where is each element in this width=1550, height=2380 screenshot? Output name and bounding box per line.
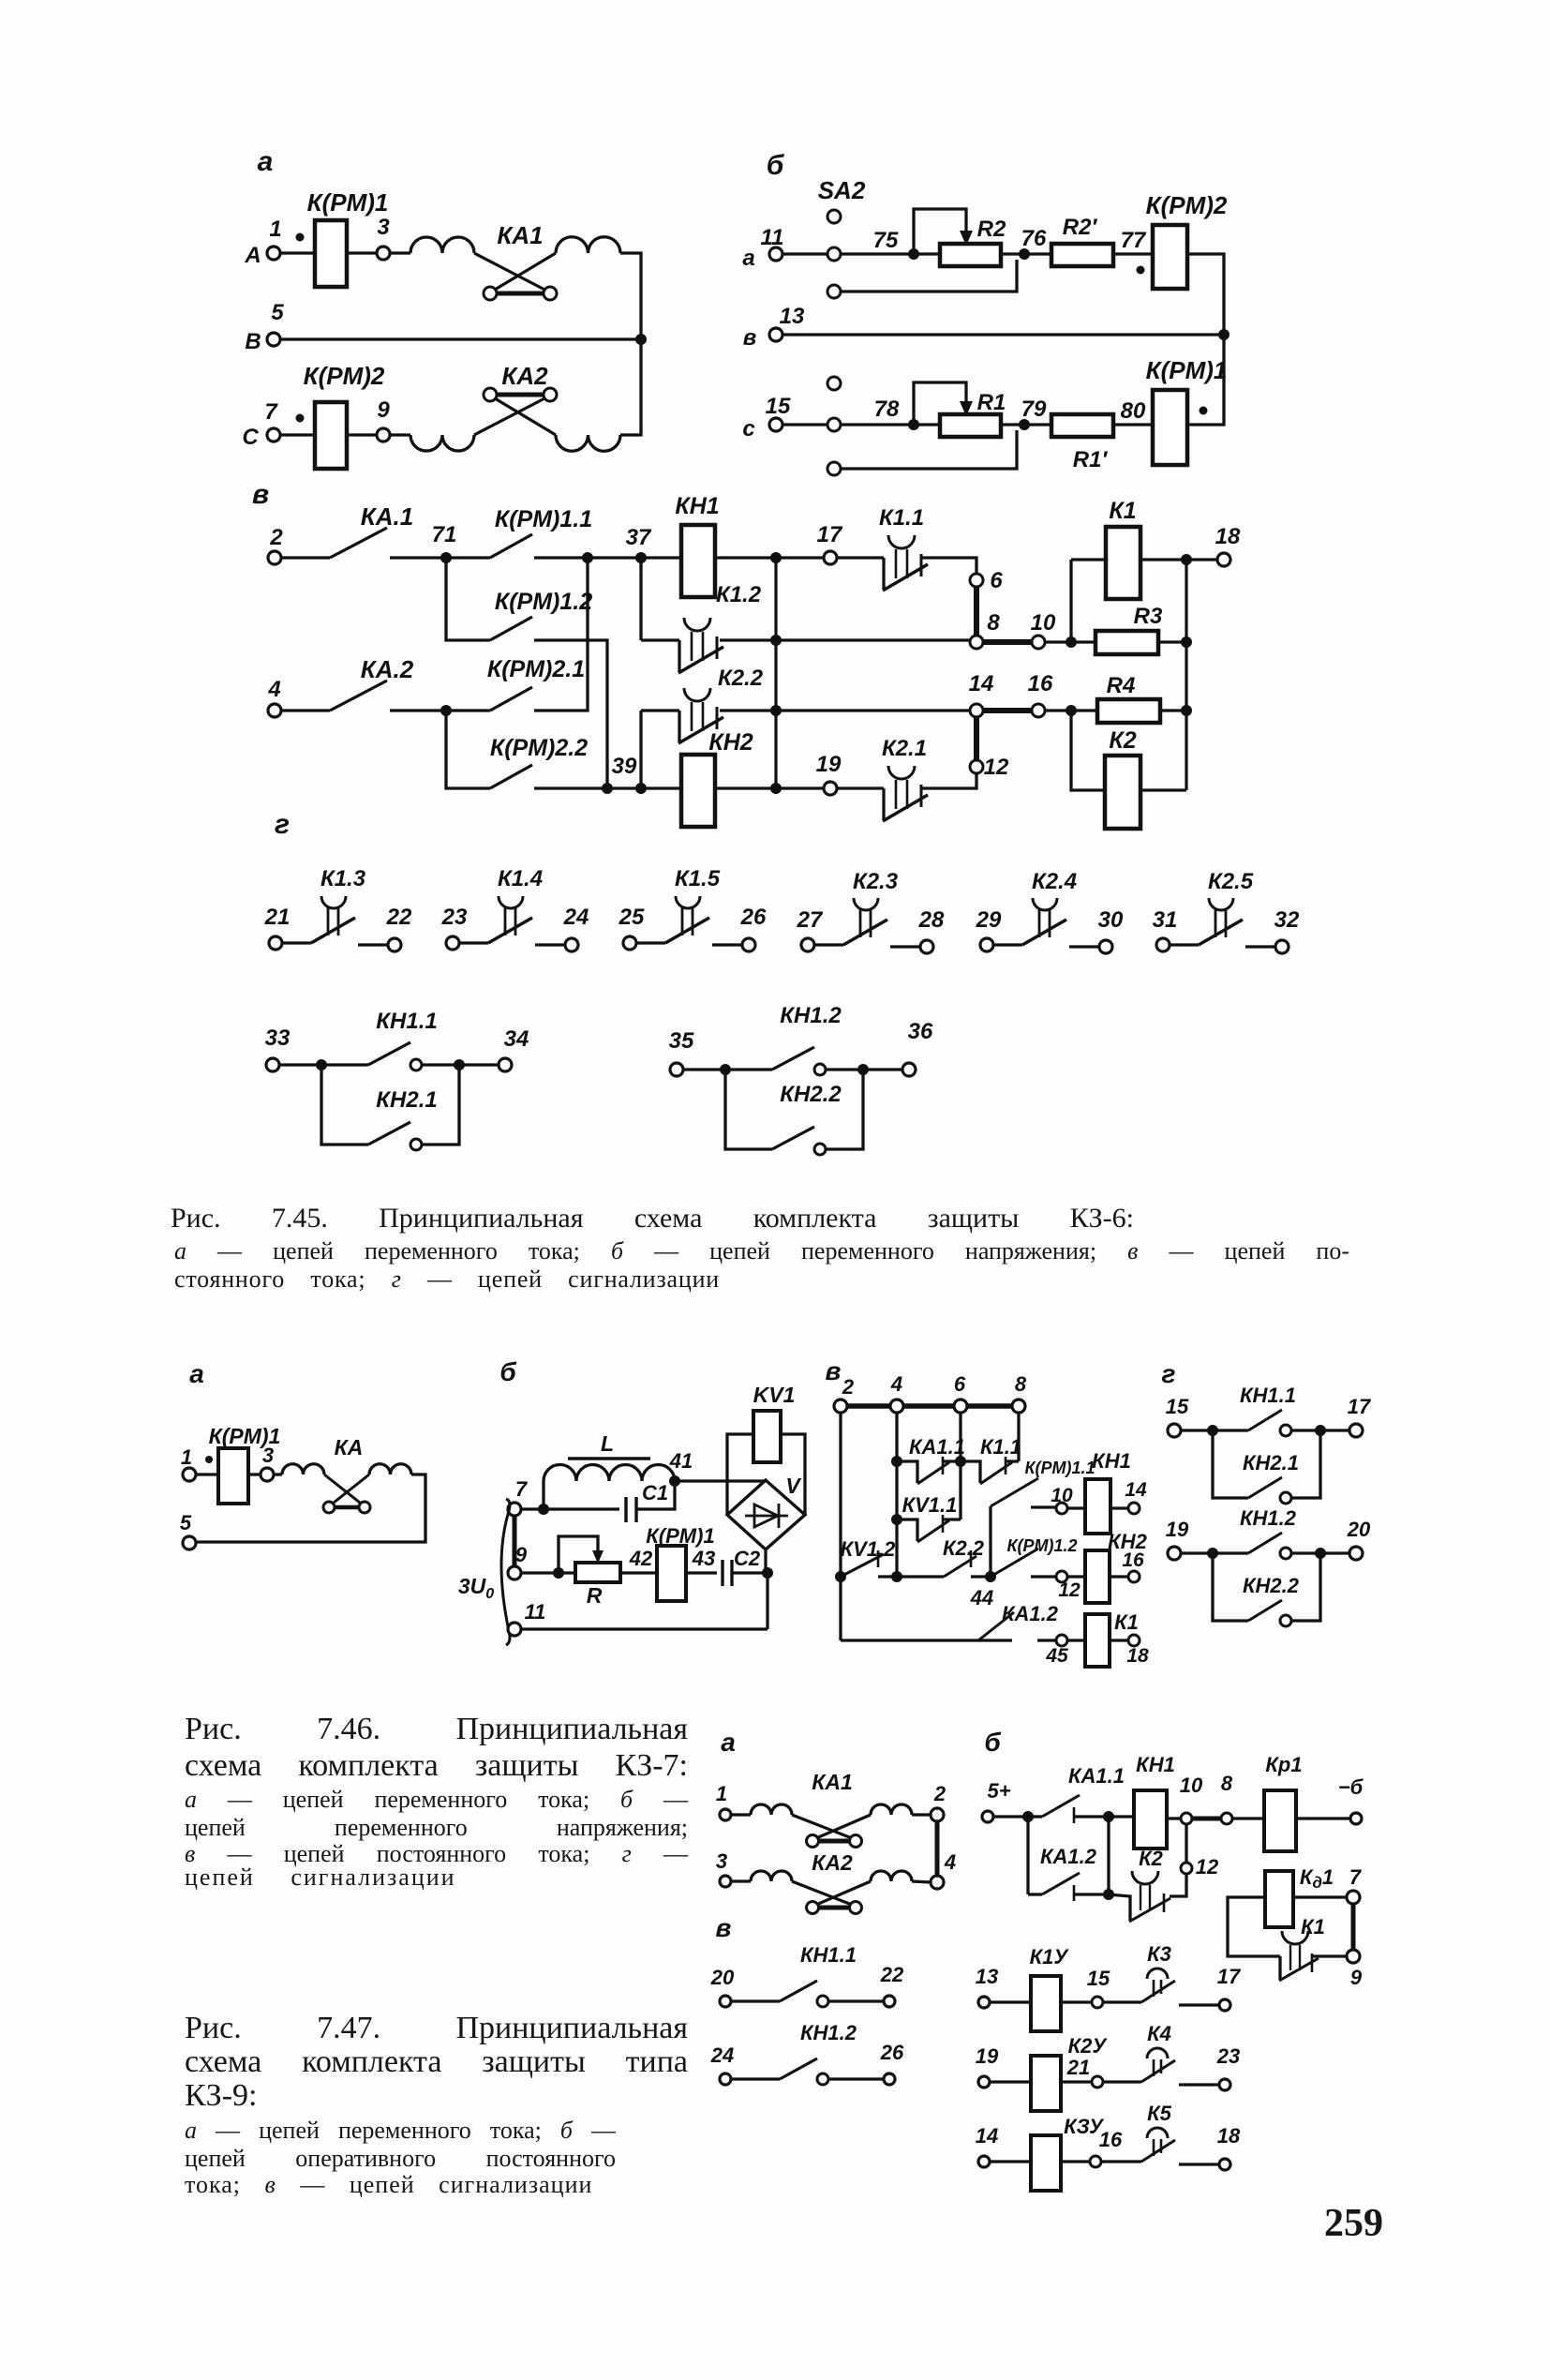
svg-text:8: 8 xyxy=(987,610,1000,636)
svg-text:К2.5: К2.5 xyxy=(1208,869,1254,894)
terminal 36 xyxy=(902,1063,916,1076)
node junction xyxy=(770,635,782,646)
branch to K1.2 xyxy=(639,558,642,640)
terminal A xyxy=(267,247,280,260)
node junction xyxy=(1181,705,1192,716)
rheostat tap R1 xyxy=(914,382,966,425)
wire 4 down xyxy=(895,1413,898,1577)
node junction xyxy=(720,1064,731,1075)
svg-text:4: 4 xyxy=(944,1850,956,1874)
svg-text:12: 12 xyxy=(984,755,1009,780)
svg-text:20: 20 xyxy=(1347,1518,1371,1541)
wire xyxy=(1291,1430,1320,1498)
contact K2.2 (time) xyxy=(641,709,679,711)
terminal 28 xyxy=(920,940,933,953)
CT winding KA2 left xyxy=(751,1871,792,1881)
svg-text:К2: К2 xyxy=(1139,1847,1164,1870)
svg-text:К2.4: К2.4 xyxy=(1032,869,1077,894)
svg-text:КН1.1: КН1.1 xyxy=(800,1943,857,1967)
wire 8 down xyxy=(1017,1413,1020,1461)
svg-text:К1.4: К1.4 xyxy=(498,866,543,891)
wire xyxy=(347,251,377,254)
svg-text:80: 80 xyxy=(1121,398,1146,424)
contact blade xyxy=(883,564,928,591)
svg-text:г: г xyxy=(275,809,290,840)
node 16 xyxy=(1128,1571,1140,1582)
svg-text:17: 17 xyxy=(1348,1395,1372,1418)
wire xyxy=(588,556,641,559)
wire xyxy=(1228,1897,1280,1956)
svg-text:К(РМ)1.1: К(РМ)1.1 xyxy=(1024,1459,1095,1477)
node 14 xyxy=(970,704,983,717)
wire xyxy=(248,1473,261,1475)
svg-text:L: L xyxy=(601,1431,614,1456)
node 12 xyxy=(1056,1571,1067,1582)
wire xyxy=(1109,1815,1134,1818)
node junction xyxy=(582,552,593,563)
node junction xyxy=(1103,1889,1114,1900)
polarity dot xyxy=(1137,266,1145,275)
relay coil Kr1 xyxy=(1264,1790,1296,1851)
node junction xyxy=(1022,1811,1034,1822)
svg-text:3: 3 xyxy=(262,1444,274,1467)
wire xyxy=(1045,709,1071,711)
wire xyxy=(1045,640,1071,643)
svg-text:23: 23 xyxy=(1216,2044,1240,2068)
svg-text:6: 6 xyxy=(954,1372,966,1396)
svg-text:28: 28 xyxy=(918,907,945,933)
node 6 xyxy=(970,574,983,587)
svg-text:К1У: К1У xyxy=(1030,1945,1070,1968)
svg-text:11: 11 xyxy=(525,1600,546,1624)
svg-text:8: 8 xyxy=(1221,1772,1233,1795)
wire xyxy=(534,556,588,559)
svg-text:К(РМ)1: К(РМ)1 xyxy=(1146,356,1228,384)
node junction xyxy=(955,1456,966,1467)
KA link bar xyxy=(335,1505,359,1510)
wire xyxy=(521,1507,544,1510)
contact blade xyxy=(883,795,928,821)
relay coil K(PM)1 xyxy=(315,220,347,287)
svg-text:8: 8 xyxy=(1015,1372,1027,1396)
svg-text:КН1.2: КН1.2 xyxy=(1240,1506,1297,1530)
svg-text:К2.3: К2.3 xyxy=(853,869,899,894)
svg-text:К2.1: К2.1 xyxy=(882,736,927,761)
svg-text:11: 11 xyxy=(761,225,784,250)
svg-text:КН2.1: КН2.1 xyxy=(1243,1451,1299,1474)
svg-text:15: 15 xyxy=(1087,1967,1110,1990)
relay coil KN1 xyxy=(681,525,715,597)
fixed contact xyxy=(920,785,923,807)
svg-text:К(РМ)2.1: К(РМ)2.1 xyxy=(487,656,585,682)
svg-text:9: 9 xyxy=(1350,1966,1363,1989)
wire xyxy=(607,786,641,789)
node junction xyxy=(1315,1425,1326,1436)
wire xyxy=(1186,558,1217,561)
terminal 5 xyxy=(183,1536,196,1549)
wire xyxy=(641,556,681,559)
wire xyxy=(782,423,827,426)
brace 3U0 xyxy=(501,1499,510,1645)
wire xyxy=(358,943,388,946)
wire v xyxy=(782,333,1224,336)
wire xyxy=(912,1813,931,1816)
svg-text:20: 20 xyxy=(710,1966,735,1989)
KA1 terminal circles xyxy=(807,1835,819,1848)
svg-text:22: 22 xyxy=(880,1963,904,1986)
node junction xyxy=(635,783,647,794)
relay coil K2 xyxy=(1071,711,1105,790)
wire xyxy=(678,640,680,672)
wire xyxy=(1167,1817,1180,1819)
caption fig 7.46 xyxy=(185,1712,688,1747)
right bus xyxy=(1185,560,1187,790)
resistor R xyxy=(559,1571,575,1574)
svg-text:К1: К1 xyxy=(1109,498,1136,524)
svg-text:в: в xyxy=(743,325,757,351)
svg-text:в: в xyxy=(716,1913,732,1942)
resistor R1' xyxy=(1051,414,1113,437)
node 3 xyxy=(261,1468,274,1481)
node 10 xyxy=(1032,636,1045,649)
svg-text:1: 1 xyxy=(269,217,281,242)
wire xyxy=(459,1063,499,1066)
terminal 2 xyxy=(268,551,281,564)
caption fig 7.45 xyxy=(171,1203,1134,1235)
svg-text:КV1.1: КV1.1 xyxy=(902,1493,958,1517)
svg-text:КА1: КА1 xyxy=(497,221,543,249)
terminal v (13) xyxy=(769,328,782,341)
resistor R2 xyxy=(914,252,940,255)
wire xyxy=(1067,1506,1085,1509)
node junction xyxy=(635,334,647,345)
svg-text:К1.5: К1.5 xyxy=(675,866,721,891)
time-delay cup xyxy=(888,535,915,548)
CT crossing KA2 xyxy=(474,396,550,435)
svg-text:С2: С2 xyxy=(734,1547,761,1570)
node 3 xyxy=(377,247,390,260)
wire xyxy=(1291,1429,1320,1431)
svg-text:10: 10 xyxy=(1180,1774,1203,1797)
wire xyxy=(280,251,315,254)
contact KA.2 xyxy=(330,681,387,711)
svg-text:КА2: КА2 xyxy=(501,362,548,390)
svg-text:−б: −б xyxy=(1338,1775,1364,1799)
svg-text:13: 13 xyxy=(780,304,805,329)
wire xyxy=(1069,945,1099,948)
time-delay cup xyxy=(684,688,710,701)
relay coil K(PM)2 xyxy=(315,402,347,469)
resistor R4 xyxy=(1071,709,1097,711)
svg-text:25: 25 xyxy=(619,905,645,930)
svg-text:SA2: SA2 xyxy=(818,176,866,204)
svg-text:2: 2 xyxy=(842,1375,855,1399)
node junction xyxy=(454,1059,465,1070)
bus 2-8 xyxy=(847,1403,890,1409)
svg-text:К3: К3 xyxy=(1147,1942,1171,1966)
svg-text:R2: R2 xyxy=(977,217,1006,242)
terminal 34 xyxy=(499,1058,512,1071)
terminal 4 xyxy=(931,1876,944,1889)
SA2 contact c xyxy=(827,418,841,431)
polarity dot xyxy=(1200,407,1208,415)
svg-text:КН2.2: КН2.2 xyxy=(780,1082,842,1107)
wire xyxy=(1179,2003,1218,2006)
terminal 5+ xyxy=(982,1811,993,1822)
svg-text:R2′: R2′ xyxy=(1063,215,1098,240)
svg-text:1: 1 xyxy=(716,1782,727,1805)
rectifier V diamond xyxy=(727,1480,805,1549)
svg-text:7: 7 xyxy=(1349,1865,1363,1889)
svg-text:К(РМ)1.2: К(РМ)1.2 xyxy=(1006,1536,1077,1555)
contact КН2.1 branch xyxy=(1213,1430,1248,1498)
reactor L xyxy=(542,1481,544,1509)
wire xyxy=(1213,1429,1248,1431)
wire xyxy=(720,638,776,641)
SA2 spare contact a xyxy=(827,285,841,298)
wire xyxy=(1160,709,1186,711)
svg-text:КН1.2: КН1.2 xyxy=(780,1003,842,1028)
node junction xyxy=(440,705,452,716)
svg-text:71: 71 xyxy=(432,522,457,547)
svg-text:КА.1: КА.1 xyxy=(361,502,413,531)
svg-text:г: г xyxy=(1162,1359,1176,1388)
wire B xyxy=(280,337,641,340)
rheostat tap R2 xyxy=(914,209,966,254)
wire xyxy=(725,1068,772,1070)
node junction xyxy=(835,1571,846,1582)
terminal 8 xyxy=(1012,1400,1025,1413)
diode inside V xyxy=(745,1515,788,1518)
wire xyxy=(841,252,914,255)
svg-text:14: 14 xyxy=(1125,1479,1147,1501)
wire xyxy=(1031,1575,1055,1578)
svg-text:К1.2: К1.2 xyxy=(716,582,762,607)
svg-text:41: 41 xyxy=(669,1449,693,1473)
terminal -b xyxy=(1350,1813,1362,1824)
terminal 3 xyxy=(720,1876,731,1887)
wire xyxy=(766,1573,768,1629)
svg-text:КН1: КН1 xyxy=(1092,1449,1131,1473)
svg-text:16: 16 xyxy=(1122,1549,1144,1571)
node junction xyxy=(891,1456,902,1467)
wire xyxy=(912,1881,931,1882)
wire xyxy=(1113,252,1153,255)
svg-text:1: 1 xyxy=(181,1445,192,1469)
wire xyxy=(620,253,641,335)
node junction 79 xyxy=(1019,419,1030,430)
svg-text:КН1: КН1 xyxy=(675,493,719,519)
KA2 link bar xyxy=(819,1906,849,1910)
svg-text:7: 7 xyxy=(515,1477,529,1501)
wire xyxy=(347,433,377,436)
polarity dot xyxy=(296,233,305,242)
svg-text:24: 24 xyxy=(710,2043,734,2067)
node 45 xyxy=(1056,1635,1067,1646)
svg-text:3: 3 xyxy=(377,215,390,240)
link 8-10 xyxy=(983,639,1032,645)
node junction xyxy=(1066,636,1077,648)
node junction xyxy=(891,1514,902,1525)
contact K(PM)2.1 xyxy=(490,687,532,711)
svg-text:15: 15 xyxy=(1166,1395,1189,1418)
svg-text:12: 12 xyxy=(1196,1855,1219,1879)
wire xyxy=(422,1065,459,1145)
wire to node 79 xyxy=(841,430,1017,469)
node junction xyxy=(770,552,782,563)
node 17 xyxy=(824,551,837,564)
resistor R3 xyxy=(1071,640,1095,643)
terminal 32 xyxy=(1275,940,1289,953)
terminal 11 xyxy=(508,1623,521,1636)
wire xyxy=(776,556,824,559)
wire xyxy=(544,1507,619,1510)
svg-text:К(РМ)1: К(РМ)1 xyxy=(307,188,389,217)
wire xyxy=(841,423,914,426)
svg-text:36: 36 xyxy=(908,1019,933,1044)
svg-text:KV1: KV1 xyxy=(753,1383,796,1407)
terminal B xyxy=(267,333,280,346)
CT winding KA1 right xyxy=(556,237,620,253)
contact КН2.2 branch xyxy=(1213,1553,1248,1621)
svg-text:10: 10 xyxy=(1031,610,1056,636)
page number 259 xyxy=(1324,2202,1399,2246)
terminal 18 xyxy=(1217,553,1230,566)
wire xyxy=(715,556,776,559)
node 16 xyxy=(1032,704,1045,717)
svg-text:16: 16 xyxy=(1028,671,1053,696)
svg-text:КА1.1: КА1.1 xyxy=(909,1435,965,1459)
switch SA2 pole c xyxy=(827,377,841,390)
wire xyxy=(678,711,680,742)
terminal 6 xyxy=(954,1400,967,1413)
svg-text:16: 16 xyxy=(1099,2128,1123,2151)
svg-text:КА: КА xyxy=(335,1435,364,1459)
svg-text:К1: К1 xyxy=(1301,1915,1325,1938)
svg-text:КН1: КН1 xyxy=(1136,1753,1175,1776)
wire xyxy=(826,1070,863,1149)
KA1 terminal circles xyxy=(484,287,497,300)
wire xyxy=(1067,1639,1085,1641)
wire to bridge xyxy=(675,1479,766,1482)
svg-text:А: А xyxy=(244,243,261,268)
svg-text:15: 15 xyxy=(766,394,791,419)
wire xyxy=(922,773,976,788)
wire xyxy=(281,709,330,711)
wire xyxy=(1291,1551,1320,1554)
svg-text:R4: R4 xyxy=(1107,673,1136,698)
wire xyxy=(1213,1551,1248,1554)
svg-text:КА1.1: КА1.1 xyxy=(1068,1764,1125,1788)
relay coil K(PM)2 (voltage) xyxy=(1153,225,1187,289)
node 19 xyxy=(824,782,837,795)
resistor R1 xyxy=(914,423,940,426)
svg-text:R3: R3 xyxy=(1134,604,1163,629)
wire xyxy=(521,1571,559,1574)
wire 2 down xyxy=(839,1413,842,1640)
wire xyxy=(1110,1575,1127,1578)
wire xyxy=(1181,1551,1213,1554)
polarity dot xyxy=(296,414,305,423)
relay coil KN1 xyxy=(1134,1790,1167,1849)
wire xyxy=(1140,788,1186,791)
terminal 2 xyxy=(931,1808,944,1821)
wire xyxy=(686,1571,717,1574)
wire xyxy=(390,433,410,436)
wire xyxy=(922,558,976,574)
SA2 contact a xyxy=(827,247,841,261)
relay coil K(PM)1 (voltage) xyxy=(1153,390,1187,465)
wire xyxy=(1140,558,1186,561)
wire xyxy=(281,556,330,559)
node junction xyxy=(1103,1811,1114,1822)
svg-text:КН2.1: КН2.1 xyxy=(376,1087,437,1113)
svg-text:К2.2: К2.2 xyxy=(718,666,764,691)
wire xyxy=(1024,252,1051,255)
capacitor C2 xyxy=(721,1560,723,1586)
node 37 xyxy=(635,552,647,563)
svg-text:К1.3: К1.3 xyxy=(320,866,366,891)
svg-text:4: 4 xyxy=(890,1372,902,1396)
svg-text:К(РМ)2: К(РМ)2 xyxy=(1146,191,1228,219)
svg-text:17: 17 xyxy=(1217,1965,1242,1988)
svg-text:21: 21 xyxy=(1066,2056,1090,2079)
relay coil KN2 xyxy=(681,755,715,827)
KA2 terminal circles xyxy=(484,388,497,401)
terminal 26 xyxy=(742,938,755,951)
link 10-12 xyxy=(1185,1824,1187,1863)
svg-text:К2У: К2У xyxy=(1068,2034,1109,2058)
svg-text:21: 21 xyxy=(264,905,291,930)
contact KA.1 xyxy=(330,528,387,558)
svg-text:К(РМ)1.1: К(РМ)1.1 xyxy=(495,506,592,532)
node junction xyxy=(762,1567,773,1579)
svg-text:с: с xyxy=(742,416,754,442)
svg-text:К1.1: К1.1 xyxy=(879,505,924,531)
wire xyxy=(390,709,446,711)
svg-text:V: V xyxy=(785,1474,801,1498)
node junction xyxy=(1218,329,1230,340)
svg-text:5: 5 xyxy=(180,1511,192,1534)
link 10-8 xyxy=(1192,1817,1220,1821)
svg-text:С1: С1 xyxy=(642,1481,668,1504)
wire xyxy=(720,709,776,711)
link 2-4 xyxy=(935,1821,940,1876)
wire xyxy=(731,1879,751,1882)
branch K(PM)2.2 xyxy=(446,711,490,788)
contact K(PM)1.1 xyxy=(490,534,532,558)
contact K(PM)2.2 xyxy=(490,765,532,788)
node junction 39 xyxy=(602,783,613,794)
svg-text:29: 29 xyxy=(976,907,1002,933)
wire xyxy=(882,788,885,820)
KA2 terminal circles xyxy=(807,1902,819,1914)
wire xyxy=(1001,252,1024,255)
svg-text:5+: 5+ xyxy=(987,1779,1010,1803)
svg-text:КН1.1: КН1.1 xyxy=(376,1009,437,1034)
wire xyxy=(990,2080,1031,2083)
svg-text:32: 32 xyxy=(1274,907,1300,933)
node 8 xyxy=(1221,1813,1232,1824)
svg-text:КА1.2: КА1.2 xyxy=(1040,1845,1097,1868)
node junction xyxy=(538,1504,549,1515)
node 10 xyxy=(1056,1503,1067,1514)
svg-text:а: а xyxy=(742,246,754,271)
relay coil K(PM)1 xyxy=(218,1448,248,1504)
wire xyxy=(620,344,641,435)
wire xyxy=(882,558,885,590)
wire bridge left xyxy=(727,1434,753,1515)
